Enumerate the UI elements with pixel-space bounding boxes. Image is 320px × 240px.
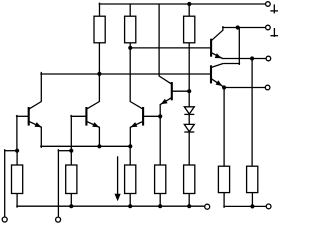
transistor Q5	[211, 26, 223, 58]
resistor R3	[184, 16, 195, 43]
terminal T3	[266, 56, 271, 61]
node Q5/Q6 collector junction	[236, 25, 240, 29]
resistor R8	[184, 165, 195, 194]
battery symbol at T2	[270, 28, 278, 37]
wire R9 top stub	[223, 88, 225, 167]
wire tail bus	[40, 145, 130, 147]
node rail-R8 junction	[187, 204, 191, 208]
wire R2 top stub	[129, 4, 131, 16]
wire Q5 base from node B	[130, 47, 211, 49]
wire Q5 emitter to T3	[222, 58, 266, 60]
transistor Q2	[70, 74, 99, 146]
transistor Q1	[16, 72, 42, 148]
wire R8 bottom stub	[188, 194, 190, 207]
wire R4 bottom stub	[16, 194, 18, 208]
node rail-R6 junction	[128, 204, 132, 208]
wire D2 to R8	[188, 132, 190, 165]
terminal T2	[266, 25, 271, 30]
wire IN1 riser	[4, 149, 17, 217]
wire R2 bottom stub	[129, 43, 131, 48]
wire R7 bottom stub	[159, 194, 161, 207]
wire Q6 collector riser	[223, 28, 240, 66]
resistor R5	[66, 165, 77, 194]
wire R9 bottom to out rail	[223, 193, 266, 208]
node IN2-R5 junction	[69, 149, 73, 153]
node tail-Q3-R6 junction	[128, 144, 132, 148]
node tail-Q2 junction	[97, 144, 101, 148]
wire Q6 emitter to T4	[224, 87, 265, 89]
resistor R2	[125, 16, 136, 43]
wire R10 top stub	[251, 59, 253, 167]
wire R6 bottom stub	[129, 194, 131, 207]
wire R4 top stub	[16, 151, 18, 165]
terminal T1 V+	[266, 2, 271, 7]
wire ground rail	[16, 205, 205, 207]
wire first-stage bus node A	[40, 73, 210, 75]
terminal IN1	[2, 217, 7, 222]
current source arrow	[115, 156, 121, 201]
node Q3-base / Q4-emitter junction	[158, 114, 162, 118]
wire R5 bottom stub	[70, 194, 72, 207]
resistor R7	[155, 165, 166, 194]
node rail-R7 junction	[158, 204, 162, 208]
wire D1-D2	[188, 114, 190, 124]
wire IN2 riser	[58, 149, 72, 217]
battery symbol at T1	[270, 4, 278, 13]
terminal T5	[266, 204, 271, 209]
wire V+ top rail	[99, 3, 266, 5]
terminal GND	[205, 204, 210, 209]
resistor R9	[218, 166, 229, 192]
wire R6 top stub	[129, 146, 131, 165]
wire R5 top stub	[70, 151, 72, 165]
node output-R10 junction	[250, 56, 254, 60]
diode D2	[184, 124, 194, 132]
transistor Q3	[130, 48, 160, 146]
node B R2/Q5-base	[128, 46, 132, 50]
resistor R1	[94, 16, 105, 43]
wire Q2 base riser	[70, 115, 72, 151]
node rail-R5 junction	[69, 204, 73, 208]
transistor Q6	[211, 64, 223, 87]
wire Q5 collector to T2	[222, 27, 266, 29]
node outrail-R10 junction	[250, 204, 254, 208]
wire R1 bottom to node A	[98, 43, 100, 74]
resistor R10	[247, 166, 258, 192]
node A junction	[97, 72, 101, 76]
terminal IN2	[56, 217, 61, 222]
node IN1-R4 junction	[15, 149, 19, 153]
wire R3 top stub	[188, 4, 190, 16]
wire Q1 base riser	[16, 115, 18, 151]
transistor Q4	[159, 4, 189, 165]
wire R1 top stub	[99, 3, 101, 17]
wire R3 bottom to diodes	[188, 43, 190, 107]
resistor R6	[125, 165, 136, 194]
node Q4 base junction	[187, 89, 191, 93]
diode D1	[184, 107, 194, 115]
node rail-R3 junction	[187, 2, 191, 6]
terminal T4	[265, 85, 270, 90]
resistor R4	[12, 165, 23, 194]
node Q6 emitter junction	[222, 85, 226, 89]
wire R10 bottom stub	[251, 193, 253, 207]
